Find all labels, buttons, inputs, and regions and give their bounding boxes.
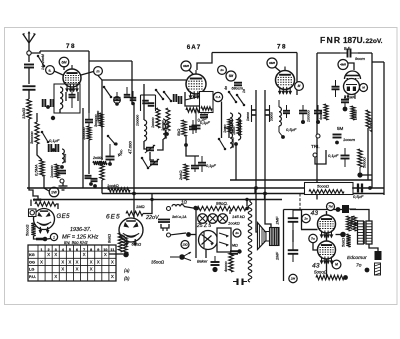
node dot [343, 107, 348, 112]
wave-change switch S1 [37, 54, 46, 70]
node dot [340, 232, 346, 238]
svg-text:1: 1 [53, 235, 55, 239]
bus junction dots [132, 186, 372, 201]
label 43 a [311, 210, 319, 217]
svg-text:43: 43 [311, 210, 319, 217]
fuse blob arrows [170, 252, 191, 261]
circle M b [295, 82, 304, 91]
wire left lead [109, 253, 123, 255]
label TRI [311, 144, 320, 149]
svg-text:22oV: 22oV [145, 215, 160, 221]
svg-text:C.A: C.A [216, 95, 221, 99]
wire caps join [292, 230, 294, 242]
svg-text:9: 9 [97, 248, 99, 252]
IF can box 2 [200, 92, 214, 113]
svg-text:1oocm: 1oocm [343, 137, 356, 142]
bus y199 long [33, 199, 282, 201]
capacitor C12 [189, 120, 197, 134]
capacitor C15 pair [174, 94, 182, 104]
capacitor C19 top [340, 49, 358, 58]
svg-text:2o: 2o [219, 68, 224, 72]
tube V7 43 output [318, 211, 336, 238]
svg-text:1936-37.: 1936-37. [70, 227, 91, 233]
wire 6M8 to tube [189, 70, 193, 74]
svg-text:6M: 6M [62, 60, 67, 64]
capacitor C6 [58, 165, 66, 173]
wire GE5 feed [30, 200, 32, 207]
svg-text:2MF: 2MF [275, 251, 280, 261]
svg-text:1Ω: 1Ω [181, 200, 187, 205]
svg-text:X: X [54, 274, 57, 279]
label 4o vertical [166, 122, 170, 128]
svg-text:8: 8 [90, 248, 92, 252]
tube V4 duodiode dome [345, 71, 361, 79]
circle 6M grid leak [59, 57, 69, 67]
mains switch [171, 232, 191, 237]
svg-text:1ooooo: 1ooooo [307, 110, 311, 122]
label Baker [197, 259, 208, 264]
wire rect down [205, 250, 207, 259]
resistor R24 5000 [26, 223, 36, 236]
resistor R21 50000 [358, 149, 367, 168]
node A top bus y51 [40, 50, 89, 52]
label 80k vertical [108, 234, 112, 243]
wire x384 vertical [383, 62, 385, 195]
svg-text:1ooooo: 1ooooo [136, 115, 140, 126]
label 0,5uF [286, 127, 297, 132]
svg-text:3ooooo: 3ooooo [30, 131, 34, 144]
resistor R4 100000 [50, 164, 59, 178]
svg-text:1oooo: 1oooo [161, 120, 165, 131]
terminal small [316, 134, 320, 138]
bus y180 [230, 179, 372, 181]
circle 7w [309, 234, 317, 242]
svg-text:187U.: 187U. [343, 36, 365, 45]
wire tube top to y63 [197, 53, 212, 71]
resistor R11 20k [178, 164, 188, 181]
svg-text:(a): (a) [124, 268, 130, 273]
wire x132 down [131, 61, 133, 103]
label 5M [337, 126, 344, 131]
svg-text:X: X [111, 274, 114, 279]
svg-text:1ooo: 1ooo [223, 125, 227, 133]
node dot [279, 126, 285, 139]
IF coil L5 [238, 113, 241, 140]
svg-text:4M8: 4M8 [340, 63, 346, 67]
wire grid bus y61 [89, 60, 132, 62]
svg-text:2MF: 2MF [275, 216, 280, 226]
resistor R12 20k under 6A7 [186, 108, 209, 112]
svg-text:47.ooo: 47.ooo [128, 141, 133, 154]
switch S5 [155, 89, 165, 101]
capacitor 2MF b [275, 242, 299, 262]
cathode blob [34, 236, 48, 241]
label 1936-37 [70, 227, 91, 233]
electrolytic pair bottom [233, 279, 247, 286]
wire x196 vertical [195, 208, 197, 258]
resistor R20 47k [366, 110, 373, 132]
capacitor C17 [198, 156, 216, 172]
node dot [184, 143, 188, 147]
gang capacitor block [136, 95, 156, 126]
switch S2 [103, 86, 113, 99]
oscillator coil L6 [144, 120, 147, 141]
svg-text:2M: 2M [290, 277, 296, 281]
svg-text:35ooΩ: 35ooΩ [151, 260, 165, 265]
node dot [336, 207, 341, 212]
capacitor C16 [200, 115, 210, 125]
wire switch to bus [189, 234, 197, 236]
label GE5 [57, 214, 71, 220]
speaker magnet [266, 232, 270, 242]
label 0,1uF diag [197, 115, 209, 123]
svg-text:145 kΩ: 145 kΩ [232, 214, 245, 219]
node dot [193, 206, 197, 210]
node blob [123, 252, 129, 258]
svg-text:X: X [40, 259, 43, 264]
svg-text:5oooΩ: 5oooΩ [314, 270, 328, 275]
node dot [108, 160, 112, 166]
svg-text:14o-2ooM: 14o-2ooM [41, 54, 45, 70]
label 3500 [151, 260, 165, 265]
bus y193 full [102, 193, 384, 195]
detector coil L7 [279, 100, 281, 126]
svg-text:1MΩ: 1MΩ [136, 204, 145, 209]
resistor R14 [161, 108, 170, 131]
circle M d2 [332, 260, 341, 269]
capacitor C22 [333, 135, 342, 145]
wire x372 vertical [371, 53, 373, 188]
wire tube pin b [77, 92, 79, 101]
label 90cm [355, 56, 365, 61]
svg-text:0,1µF: 0,1µF [328, 153, 339, 158]
svg-text:a.: a. [49, 68, 52, 72]
capacitor in T1 [69, 88, 76, 108]
svg-text:1ookΩ: 1ookΩ [228, 221, 240, 226]
svg-text:22oV.: 22oV. [366, 38, 383, 45]
wire pickup [315, 150, 326, 164]
svg-text:X: X [97, 259, 100, 264]
wire corner [186, 136, 199, 156]
circle 2M d [289, 274, 297, 282]
circle M c [360, 84, 368, 92]
svg-text:8okΩ: 8okΩ [108, 234, 112, 243]
resistor R22 5000 [309, 184, 344, 194]
wire x317 vertical [316, 53, 318, 200]
label 78 first tube [66, 43, 76, 50]
label 43 b [312, 263, 320, 270]
wire x134 long vertical [133, 103, 135, 194]
svg-text:GE5: GE5 [57, 214, 71, 220]
svg-text:Baker: Baker [197, 259, 208, 264]
ballast box [217, 228, 231, 252]
svg-text:FNR: FNR [320, 35, 341, 45]
svg-text:78: 78 [66, 43, 76, 50]
speaker wire b [265, 194, 271, 229]
dial lamp 3 [218, 214, 228, 224]
svg-text:m: m [97, 69, 100, 73]
resistor R10 5k [176, 120, 186, 136]
switch S6 [163, 91, 173, 103]
capacitor C10 [106, 144, 115, 160]
coupling cap black [342, 205, 356, 213]
svg-text:X: X [90, 259, 93, 264]
svg-text:43: 43 [312, 263, 320, 270]
circle 4M8 [338, 60, 348, 70]
svg-text:11: 11 [111, 248, 115, 252]
svg-text:7M: 7M [328, 205, 333, 209]
resistor R30a [347, 216, 351, 231]
svg-text:7ω: 7ω [311, 237, 316, 241]
label Mohm [232, 244, 238, 248]
resistor R26 [118, 233, 122, 252]
svg-text:5kΩ: 5kΩ [176, 129, 181, 136]
circle 6M b [226, 71, 236, 81]
capacitor C7 [85, 113, 93, 126]
label 30V [172, 215, 187, 219]
resistor R28 990 [197, 206, 246, 210]
svg-text:Edcomur: Edcomur [347, 255, 367, 261]
circle 2o c [302, 214, 310, 222]
svg-text:6E5: 6E5 [106, 214, 121, 221]
resistor R1 vertical [21, 99, 31, 119]
svg-text:0,1µF: 0,1µF [206, 164, 216, 168]
svg-text:X: X [61, 259, 64, 264]
capacitor C14 [192, 110, 201, 133]
wire 6E5 up [133, 194, 135, 219]
svg-text:4oooo: 4oooo [231, 137, 235, 148]
V4 pins [347, 94, 355, 99]
svg-text:1oooo: 1oooo [246, 112, 250, 121]
circle m plate [94, 67, 103, 76]
capacitor C26 [211, 256, 220, 272]
resistor R29 [224, 253, 233, 272]
wire L6 down [144, 141, 147, 149]
circle 7M b [327, 203, 335, 211]
svg-text:5oooΩ: 5oooΩ [26, 225, 30, 236]
svg-text:X: X [83, 252, 86, 257]
svg-text:X: X [104, 252, 107, 257]
wire tube to m [81, 72, 94, 76]
bus y188 full [27, 187, 384, 189]
svg-text:SW: SW [51, 190, 57, 194]
tube V5 GE5 tuning eye [34, 209, 55, 235]
tube V3 78 IF amp [276, 67, 295, 95]
svg-text:Inv. 9oo KHz: Inv. 9oo KHz [64, 240, 89, 245]
wire x37 [36, 113, 38, 122]
resistor R5 [82, 126, 91, 140]
output box left edge [301, 210, 303, 230]
switch S4 [107, 135, 118, 146]
resistor R9 100kOhm [107, 183, 130, 192]
IF coil L4 [230, 113, 235, 148]
label 1M b [136, 204, 145, 209]
svg-text:4: 4 [62, 248, 64, 252]
svg-text:5okΩ: 5okΩ [342, 238, 346, 247]
wire x83 vertical [82, 108, 84, 188]
electrolytic C24 [352, 184, 369, 193]
bus connector b [254, 188, 256, 194]
svg-text:4oooo: 4oooo [319, 110, 323, 120]
wire under T1 [59, 109, 61, 113]
wire lamps [229, 210, 231, 214]
wire [28, 68, 30, 84]
resistor R15 [223, 119, 232, 133]
switch S10 [141, 157, 150, 170]
tube V2 base box [185, 92, 210, 106]
wire [44, 176, 49, 191]
wire 236 down [235, 144, 237, 180]
label 990 [216, 201, 228, 206]
svg-text:1oooo: 1oooo [270, 112, 274, 121]
capacitor 2MF a [275, 210, 299, 230]
bus connector d [306, 188, 308, 194]
circle 2o b [233, 229, 241, 237]
svg-text:X: X [47, 252, 50, 257]
wire [157, 139, 163, 150]
wire [360, 174, 372, 176]
svg-text:1ooooo: 1ooooo [82, 127, 86, 140]
svg-text:0,5MA: 0,5MA [34, 164, 39, 176]
wire a to tube [54, 71, 63, 75]
speaker plug black [375, 251, 382, 260]
svg-text:9ocm: 9ocm [355, 56, 365, 61]
terminal [313, 153, 317, 157]
node dot [234, 142, 238, 146]
svg-text:MΩ: MΩ [232, 244, 238, 248]
svg-text:6: 6 [76, 248, 78, 252]
circle 2o [218, 66, 227, 75]
wire [37, 144, 42, 160]
wire x265 vertical [264, 90, 266, 194]
resistor R8 [96, 111, 104, 180]
wire y62 right [372, 61, 384, 63]
mains terminal b [167, 233, 171, 237]
svg-text:5oooΩ: 5oooΩ [317, 184, 329, 189]
wire to bus [101, 180, 103, 194]
circle 6M8 a [181, 61, 191, 71]
wire x144 [143, 84, 145, 120]
output box top [284, 209, 343, 211]
switch S7 4o [224, 86, 237, 103]
svg-text:25 Z 5: 25 Z 5 [196, 223, 211, 229]
wire 7w down [313, 243, 318, 250]
svg-text:X: X [69, 259, 72, 264]
capacitor 680cm [232, 83, 243, 91]
mains terminal a [167, 207, 171, 211]
capacitor C21 [341, 95, 349, 107]
capacitor C8 pair [85, 176, 98, 188]
svg-text:13Ω: 13Ω [182, 243, 188, 247]
label 4uF [116, 148, 125, 157]
svg-text:2okΩ: 2okΩ [178, 171, 183, 182]
capacitor C1 antenna [24, 65, 34, 68]
wire left column [29, 119, 38, 200]
padder trimmer CT1 [145, 145, 155, 153]
resistor R25 1M [126, 211, 143, 216]
resistor R23 1M [35, 202, 56, 207]
capacitor C25 [230, 249, 242, 254]
wire x368 down [367, 128, 369, 180]
svg-text:1ooooo: 1ooooo [50, 165, 54, 178]
transformer left wire [352, 216, 358, 224]
mains fuse 1ohm [172, 200, 187, 207]
svg-text:0,5µF: 0,5µF [353, 194, 364, 199]
svg-text:13o33: 13o33 [21, 107, 26, 119]
wire bus right corner [296, 53, 298, 96]
capacitor C18 pair [283, 105, 290, 118]
svg-text:5: 5 [69, 248, 71, 252]
resistor R32 5000 [316, 275, 348, 280]
svg-text:P.U.: P.U. [29, 275, 36, 279]
svg-text:1ooooo: 1ooooo [96, 111, 100, 122]
dial lamp 1 [198, 214, 208, 224]
wire plug [369, 244, 378, 251]
label 1M a [33, 197, 42, 202]
capacitor C9 pair [43, 99, 54, 109]
heater dropper wavy [248, 202, 252, 282]
svg-text:5oooo: 5oooo [363, 157, 367, 168]
output transformer [358, 221, 373, 244]
svg-text:OG: OG [29, 260, 35, 264]
svg-text:4oooo: 4oooo [224, 261, 228, 272]
label 47000 vertical [128, 141, 133, 154]
svg-text:78: 78 [277, 44, 287, 51]
capacitor C27 [299, 105, 311, 122]
bus connector dashed [299, 194, 301, 210]
svg-text:LG: LG [29, 268, 34, 272]
screen bus y80 [102, 79, 186, 81]
wire x102 down [101, 80, 103, 98]
svg-text:4o: 4o [224, 86, 228, 90]
svg-text:X: X [76, 267, 79, 272]
wire 6M down [63, 67, 65, 70]
svg-text:6M8: 6M8 [183, 64, 189, 68]
svg-text:(b): (b) [124, 276, 130, 281]
label inv [64, 240, 89, 245]
wire antenna to bus [31, 51, 40, 53]
tube V1 78 RF amp [63, 65, 81, 92]
rectifier tube [199, 231, 218, 250]
label 25Z5 [196, 223, 211, 229]
label 100k [228, 221, 240, 226]
capacitor C28 [301, 105, 322, 124]
svg-text:KG: KG [29, 253, 35, 257]
capacitor C11a [114, 92, 121, 106]
bus y52 [212, 52, 297, 54]
terminal [60, 179, 64, 183]
circle 6M8 b [267, 58, 277, 68]
wire cap top right [293, 209, 302, 211]
wire x256 vertical [255, 90, 257, 188]
speaker cone [258, 223, 267, 250]
svg-text:1: 1 [41, 248, 43, 252]
resistor R19 [351, 106, 358, 120]
wire between 43s [326, 233, 328, 241]
label 0,5uF c [353, 194, 364, 199]
circle SW [49, 187, 59, 197]
transformer top wires [350, 210, 369, 222]
svg-text:47oooΩ: 47oooΩ [369, 118, 373, 132]
dropper resistor hatched [375, 263, 381, 275]
resistor R27 600 [123, 236, 141, 253]
svg-text:6M8: 6M8 [269, 61, 275, 65]
bus connector a [151, 194, 153, 200]
resistor R30b [349, 216, 357, 231]
svg-text:X: X [111, 259, 114, 264]
wire dot left [336, 234, 344, 236]
capacitor C2 [23, 86, 36, 90]
